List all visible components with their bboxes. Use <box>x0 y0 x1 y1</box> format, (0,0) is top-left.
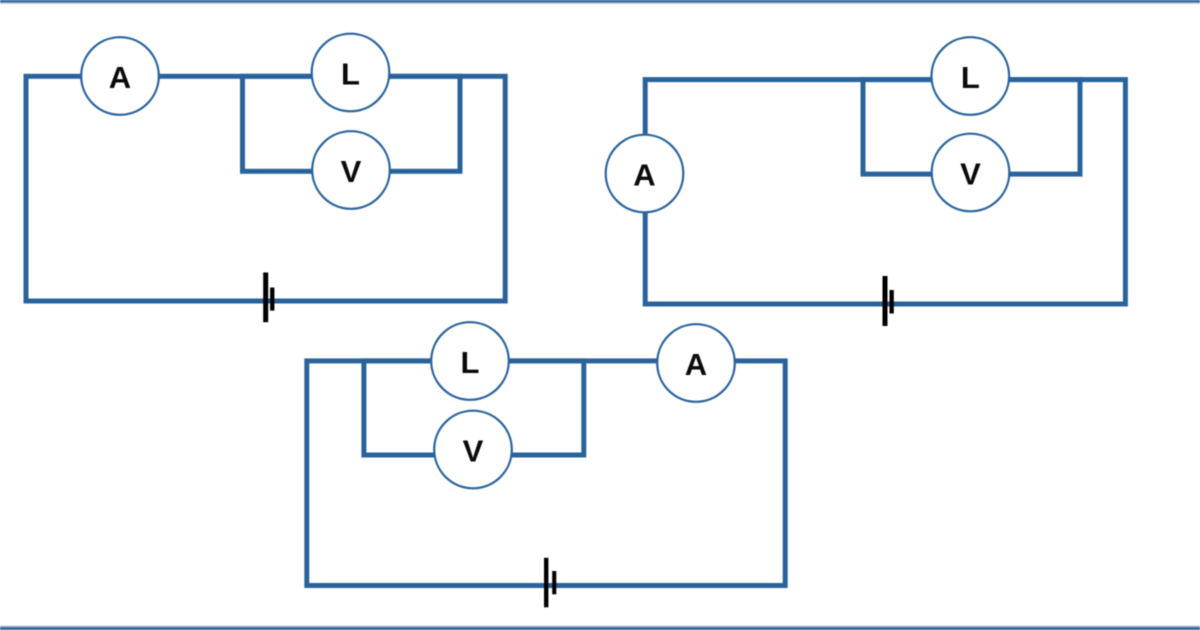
battery B3 short plate <box>552 571 556 594</box>
wire: circuit 3 outer loop <box>307 361 785 586</box>
wire: circuit 1 voltmeter parallel branch <box>243 76 461 171</box>
wire: circuit 2 outer loop <box>645 80 1125 304</box>
lamp L (circuit 1) <box>312 34 390 112</box>
wire: circuit 3 voltmeter parallel branch <box>364 361 584 455</box>
battery B3 long plate <box>544 558 548 608</box>
voltmeter V (circuit 2) <box>932 134 1010 212</box>
svg-text:L: L <box>461 345 480 380</box>
svg-text:A: A <box>685 347 707 382</box>
page top border <box>0 0 1200 4</box>
svg-text:V: V <box>463 434 484 469</box>
svg-text:L: L <box>961 60 980 95</box>
voltmeter V (circuit 3) <box>434 411 512 489</box>
voltmeter V (circuit 1) <box>312 131 390 209</box>
battery B2 short plate <box>890 290 894 314</box>
wire: circuit 1 outer loop <box>26 76 505 301</box>
battery B1 long plate <box>263 273 268 323</box>
svg-text:V: V <box>341 154 362 189</box>
battery B1 short plate <box>270 288 274 311</box>
svg-text:V: V <box>960 157 981 192</box>
svg-text:A: A <box>633 158 655 193</box>
ammeter A (circuit 3) <box>657 324 735 402</box>
svg-text:A: A <box>109 60 131 95</box>
wire: circuit 2 voltmeter parallel branch <box>863 80 1080 175</box>
page bottom border <box>0 625 1200 630</box>
battery B2 long plate <box>883 276 888 326</box>
ammeter A (circuit 1) <box>81 37 159 115</box>
ammeter A (circuit 2) <box>606 135 684 213</box>
lamp L (circuit 3) <box>431 322 509 400</box>
lamp L (circuit 2) <box>932 37 1010 115</box>
svg-text:L: L <box>341 57 360 92</box>
